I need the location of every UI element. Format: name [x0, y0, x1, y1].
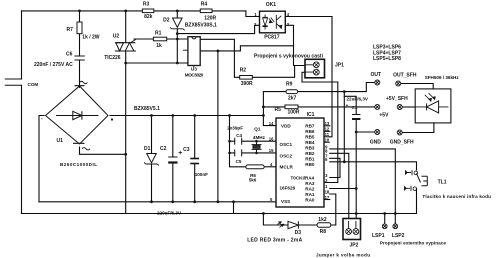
svg-text:OK1: OK1: [266, 2, 277, 8]
svg-text:22uF/6,3V: 22uF/6,3V: [347, 97, 369, 102]
svg-text:2k7: 2k7: [288, 96, 297, 102]
svg-text:OSC2: OSC2: [280, 154, 293, 159]
IC1 box: [276, 118, 324, 207]
svg-text:5k6: 5k6: [249, 178, 257, 183]
svg-text:220uF/6.3V: 220uF/6.3V: [157, 211, 182, 216]
resistor R1: [153, 37, 166, 41]
svg-text:GND_SFH: GND_SFH: [390, 140, 414, 146]
svg-text:17: 17: [325, 195, 330, 200]
svg-text:LED RED 3mm - 2mA: LED RED 3mm - 2mA: [247, 238, 302, 244]
svg-text:COM: COM: [28, 82, 39, 87]
svg-text:RA3: RA3: [305, 181, 315, 186]
wire OK1 pin2 to D2: [177, 25, 259, 33]
svg-text:Propojeni s vykonovou casti: Propojeni s vykonovou casti: [254, 54, 324, 60]
svg-text:RB5: RB5: [305, 135, 315, 140]
wire C3 branch: [194, 116, 196, 159]
svg-text:OUT_SFH: OUT_SFH: [393, 73, 417, 79]
svg-text:14: 14: [269, 121, 274, 126]
svg-text:BZX85V5.1: BZX85V5.1: [134, 106, 160, 112]
bridge AC squiggle top: [80, 81, 88, 84]
capacitor C2 electrolytic: [168, 156, 177, 158]
capacitor C6: [74, 56, 84, 60]
svg-text:13: 13: [325, 121, 330, 126]
LED D3: [288, 221, 298, 228]
connector JP2: [343, 219, 361, 240]
wire R6 to MCLR: [264, 166, 276, 168]
button TL1: [406, 170, 413, 175]
IC1 right pin numbers: [325, 121, 330, 200]
svg-text:+: +: [346, 103, 349, 108]
svg-text:SFH506 / 36kHz: SFH506 / 36kHz: [425, 75, 460, 80]
svg-text:15: 15: [269, 148, 274, 153]
capacitor C4: [235, 138, 242, 145]
svg-text:RB4: RB4: [305, 140, 315, 145]
svg-text:16F628: 16F628: [280, 186, 296, 191]
optotriac U3 MOC3020 box: [188, 37, 200, 66]
wire bridge minus lead: [39, 116, 44, 202]
svg-text:R3: R3: [143, 1, 150, 7]
wire D3 R8 chain: [263, 214, 288, 226]
wire OUT_SFH to receiver: [401, 84, 433, 89]
svg-text:VDD: VDD: [281, 124, 291, 129]
svg-text:120R: 120R: [204, 15, 216, 21]
wire VSS link to bottom rail: [233, 202, 235, 214]
wire RB0 to TL1: [330, 162, 417, 170]
svg-text:+5V_SFH: +5V_SFH: [386, 96, 408, 102]
svg-text:C1: C1: [352, 105, 358, 110]
svg-text:RB6: RB6: [305, 129, 315, 134]
wire LSP2 stub: [394, 222, 396, 225]
wire JP1 bottom pin to RA3: [302, 72, 338, 182]
wire RA2 to JP2: [330, 188, 356, 190]
svg-text:LSP5+LSP8: LSP5+LSP8: [373, 56, 401, 62]
svg-text:R9: R9: [286, 81, 293, 87]
wire D2 branch: [176, 11, 178, 18]
IC1 left pin numbers: [269, 121, 274, 202]
capacitor C1 electrolytic: [352, 114, 360, 116]
IR receiver SFH506 box: [415, 89, 451, 123]
connector COM: [5, 79, 22, 85]
svg-text:B250C1000DIL: B250C1000DIL: [60, 162, 97, 167]
svg-text:VSS: VSS: [281, 199, 290, 204]
svg-text:100R: 100R: [288, 110, 300, 116]
wire GND terminal lead: [356, 131, 374, 133]
svg-text:U3: U3: [191, 67, 197, 72]
svg-text:82k: 82k: [144, 14, 153, 20]
wire triac MT1 to MOC3020: [126, 62, 188, 64]
svg-text:18: 18: [325, 189, 330, 194]
svg-text:R7: R7: [67, 27, 74, 33]
svg-text:390R: 390R: [241, 81, 253, 87]
svg-text:U2: U2: [113, 33, 120, 39]
svg-text:Jumper k volbe modu: Jumper k volbe modu: [316, 253, 370, 258]
wire TL1 lower lead: [416, 189, 418, 214]
svg-text:C6: C6: [66, 51, 73, 57]
wire bottom ground rail: [22, 213, 417, 215]
wire VSS ground rail: [39, 201, 276, 203]
wire bridge AC2: [80, 147, 126, 154]
svg-text:C3: C3: [183, 147, 190, 153]
OK1 internal LED: [263, 15, 268, 30]
wire +5V_SFH to receiver: [403, 106, 416, 108]
svg-text:U1: U1: [57, 138, 64, 144]
terminal LSP1: [382, 224, 387, 229]
resistor R6: [246, 165, 264, 169]
svg-text:OSC1: OSC1: [280, 142, 293, 147]
triac U2: [115, 43, 136, 51]
wire OUT net down to RB0: [343, 92, 345, 162]
wire step to OK1 pin1: [246, 11, 260, 17]
svg-text:1k / 2W: 1k / 2W: [82, 35, 100, 41]
svg-text:TIC226: TIC226: [104, 55, 121, 61]
wire C2 branch: [172, 116, 174, 158]
svg-text:OUT: OUT: [371, 72, 382, 78]
resistor R9: [286, 90, 298, 94]
wire MOC pin to OK1 pin3 net: [200, 46, 293, 51]
svg-text:1k: 1k: [156, 43, 162, 49]
wire top mains live: [22, 10, 246, 12]
svg-text:R8: R8: [320, 229, 327, 235]
svg-text:11: 11: [325, 132, 330, 137]
wire RB3 to LSP2: [330, 149, 396, 223]
svg-text:MOC3020: MOC3020: [185, 73, 204, 78]
wire OSC1 with C4: [230, 140, 235, 142]
zener diode D1: [147, 154, 157, 163]
resistor R8: [317, 223, 331, 227]
svg-text:RA2: RA2: [305, 186, 315, 191]
svg-text:4MHz: 4MHz: [253, 135, 266, 140]
svg-text:RB0: RB0: [305, 162, 315, 167]
svg-text:16: 16: [269, 136, 274, 141]
terminals column OUT +5V GND: [375, 80, 402, 229]
svg-text:RB7: RB7: [305, 124, 315, 129]
svg-text:MCLR: MCLR: [280, 164, 294, 169]
svg-text:GND: GND: [370, 139, 382, 145]
svg-text:C5: C5: [236, 159, 242, 164]
wire neutral branch to triac: [125, 11, 127, 42]
svg-text:1k2: 1k2: [318, 217, 327, 223]
svg-text:RA0: RA0: [305, 197, 315, 202]
terminals column SFH: [396, 81, 401, 86]
svg-text:LSP2: LSP2: [392, 233, 405, 239]
wire GND_SFH to receiver: [403, 123, 434, 133]
svg-text:R4: R4: [201, 1, 208, 7]
svg-text:220nF / 275V AC: 220nF / 275V AC: [34, 62, 73, 68]
svg-text:D3: D3: [295, 230, 302, 236]
svg-text:TL1: TL1: [438, 179, 447, 185]
wire R9 right to OUT terminal: [298, 83, 375, 92]
capacitor C3: [190, 158, 199, 160]
wire R9 left to VDD node: [263, 92, 286, 126]
wire +5V rail: [110, 115, 263, 117]
svg-text:PC817: PC817: [264, 35, 280, 41]
resistor R2: [240, 76, 253, 80]
wire MOC cathode down to ground: [217, 51, 219, 202]
svg-text:+5V: +5V: [379, 113, 389, 119]
wire RA1 to R8: [330, 194, 336, 225]
OK1 internal phototransistor: [276, 15, 282, 29]
svg-text:C2: C2: [160, 146, 167, 152]
wire RB2 to JP2: [330, 153, 349, 218]
svg-text:100nF: 100nF: [195, 172, 208, 177]
svg-text:Q1: Q1: [254, 127, 261, 132]
svg-text:T0CKI/RA4: T0CKI/RA4: [291, 176, 315, 181]
wire LSP1 stub: [384, 214, 386, 224]
crystal Q1: [252, 141, 262, 153]
resistor R4: [200, 9, 212, 13]
svg-text:IC1: IC1: [307, 112, 315, 118]
wire D1 branch: [151, 116, 153, 154]
zener diode D2: [173, 18, 183, 27]
terminal LSP2: [393, 224, 398, 229]
wire OK1 pin4 to RB5: [285, 17, 332, 137]
svg-text:LSP1: LSP1: [372, 233, 385, 239]
wire RB1 to RA4: [330, 158, 340, 177]
wire triac gate through R1: [134, 38, 188, 40]
optocoupler OK1 box: [260, 11, 286, 33]
svg-text:C4: C4: [236, 133, 242, 138]
resistor R5: [285, 105, 298, 109]
svg-text:JP2: JP2: [350, 243, 359, 249]
resistor R7: [77, 22, 82, 34]
svg-text:RB2: RB2: [305, 151, 315, 156]
bridge plus dot: [111, 118, 113, 120]
wire R5 to +5V terminal: [263, 106, 285, 108]
svg-text:R5: R5: [275, 107, 282, 113]
wire R7-C6 branch: [79, 11, 81, 22]
wire R2 right to pin3 net: [252, 66, 294, 78]
connector JP1: [305, 59, 325, 78]
svg-text:R1: R1: [155, 30, 162, 36]
svg-text:10: 10: [325, 138, 330, 143]
svg-text:Propojeni externiho vypinace: Propojeni externiho vypinace: [380, 240, 446, 245]
resistor R3: [142, 9, 153, 13]
bridge rectifier U1: [46, 86, 109, 144]
svg-text:D2: D2: [163, 17, 170, 23]
svg-text:RA1: RA1: [305, 192, 315, 197]
svg-text:RB1: RB1: [305, 157, 315, 162]
wire MOC top pin to R2: [200, 39, 240, 77]
svg-text:R2: R2: [240, 68, 247, 74]
wire branch to C1 and GND: [344, 96, 356, 114]
svg-text:JP1: JP1: [335, 62, 344, 68]
svg-text:2x39pF: 2x39pF: [227, 126, 243, 131]
wire left border / COM leads: [21, 11, 23, 79]
wire OK1 pin3 to JP1: [285, 25, 305, 65]
IC1 pin stubs right: [324, 137, 330, 183]
bridge AC squiggle bottom: [82, 148, 90, 151]
svg-text:Tlacitko k nauceni infra kodu: Tlacitko k nauceni infra kodu: [422, 194, 491, 199]
wire RB7 RB6 RA0 stubs: [324, 125, 330, 127]
capacitor C5: [235, 149, 242, 156]
svg-text:D1: D1: [144, 146, 151, 152]
wire OSC2 with C5: [230, 152, 235, 154]
svg-text:12: 12: [325, 127, 330, 132]
wire crystal caps bus: [230, 116, 246, 167]
svg-text:RB3: RB3: [305, 146, 315, 151]
svg-text:BZX85V30S,1: BZX85V30S,1: [185, 23, 217, 29]
